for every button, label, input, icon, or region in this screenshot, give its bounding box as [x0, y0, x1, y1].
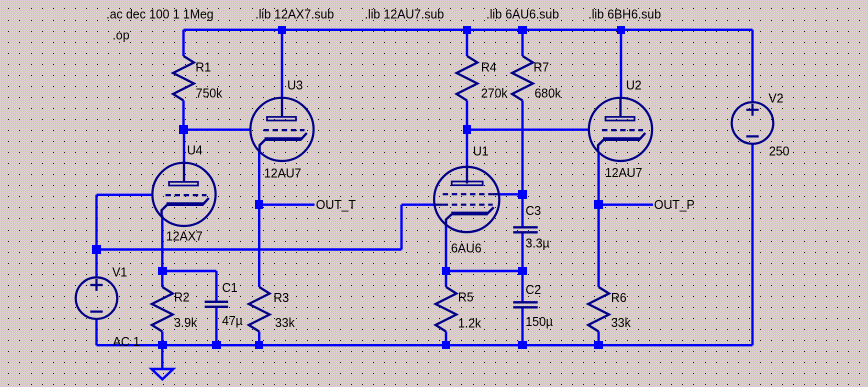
svg-text:47µ: 47µ — [222, 313, 243, 328]
svg-text:12AX7: 12AX7 — [166, 229, 203, 244]
svg-text:6AU6: 6AU6 — [451, 241, 482, 256]
svg-text:.lib 6AU6.sub: .lib 6AU6.sub — [486, 7, 559, 22]
svg-text:150µ: 150µ — [526, 314, 554, 329]
svg-text:12AU7: 12AU7 — [264, 166, 301, 181]
svg-text:AC 1: AC 1 — [113, 334, 140, 349]
svg-text:U1: U1 — [473, 144, 489, 159]
svg-text:R7: R7 — [534, 60, 550, 75]
svg-text:R5: R5 — [458, 290, 474, 305]
svg-text:R1: R1 — [196, 60, 212, 75]
svg-text:C1: C1 — [222, 280, 238, 295]
svg-text:R4: R4 — [481, 60, 497, 75]
svg-text:3.9k: 3.9k — [174, 315, 198, 330]
svg-text:OUT_T: OUT_T — [316, 197, 356, 212]
svg-text:R2: R2 — [174, 290, 190, 305]
svg-text:12AU7: 12AU7 — [605, 165, 642, 180]
svg-text:.lib 6BH6.sub: .lib 6BH6.sub — [588, 7, 661, 22]
svg-text:.ac dec 100 1 1Meg: .ac dec 100 1 1Meg — [106, 7, 213, 22]
svg-text:V1: V1 — [112, 265, 127, 280]
svg-text:U3: U3 — [287, 78, 303, 93]
svg-text:R3: R3 — [274, 290, 290, 305]
svg-text:U2: U2 — [626, 78, 642, 93]
svg-text:270k: 270k — [481, 86, 508, 101]
svg-text:.lib 12AU7.sub: .lib 12AU7.sub — [365, 7, 445, 22]
svg-text:250: 250 — [769, 144, 789, 159]
svg-text:1.2k: 1.2k — [458, 316, 482, 331]
svg-text:U4: U4 — [187, 143, 203, 158]
svg-text:.lib 12AX7.sub: .lib 12AX7.sub — [255, 7, 334, 22]
svg-text:680k: 680k — [535, 86, 562, 101]
svg-text:OUT_P: OUT_P — [654, 197, 695, 212]
svg-text:3.3µ: 3.3µ — [526, 236, 551, 251]
svg-text:33k: 33k — [611, 315, 631, 330]
svg-text:33k: 33k — [275, 315, 295, 330]
svg-text:750k: 750k — [196, 86, 223, 101]
svg-text:V2: V2 — [769, 91, 784, 106]
svg-text:C3: C3 — [526, 203, 542, 218]
svg-text:C2: C2 — [526, 282, 542, 297]
svg-text:.op: .op — [113, 27, 130, 42]
svg-text:R6: R6 — [611, 290, 627, 305]
